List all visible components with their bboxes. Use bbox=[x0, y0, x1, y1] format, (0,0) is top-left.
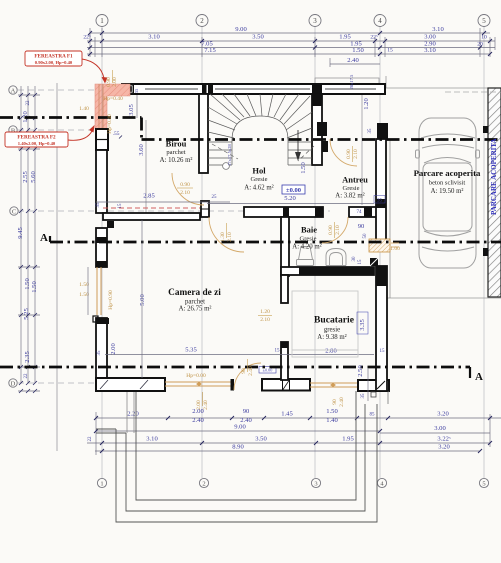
svg-text:7.15: 7.15 bbox=[204, 47, 216, 54]
svg-text:90: 90 bbox=[243, 408, 250, 415]
STAIRS bbox=[208, 94, 312, 165]
svg-text:35: 35 bbox=[361, 393, 366, 399]
TOP DIMENSIONS bbox=[87, 28, 495, 67]
fixtures: toilet + sink bbox=[297, 247, 347, 266]
svg-text:3.50: 3.50 bbox=[252, 34, 264, 41]
svg-text:Gresie: Gresie bbox=[300, 236, 317, 243]
svg-text:Camera de zi: Camera de zi bbox=[168, 288, 221, 298]
svg-text:35: 35 bbox=[368, 128, 373, 134]
svg-text:Hol: Hol bbox=[252, 166, 266, 176]
grid column lines bbox=[102, 27, 484, 478]
window left camera bbox=[96, 267, 98, 315]
svg-text:A: 3.82 m²: A: 3.82 m² bbox=[335, 193, 364, 200]
svg-text:15: 15 bbox=[275, 349, 281, 354]
svg-text:9.00: 9.00 bbox=[235, 26, 247, 33]
svg-text:2.40: 2.40 bbox=[192, 417, 204, 424]
svg-text:Hp=0.00: Hp=0.00 bbox=[186, 373, 206, 379]
bottom window 2 bbox=[310, 382, 357, 384]
svg-text:Antreu: Antreu bbox=[342, 175, 368, 185]
svg-text:35: 35 bbox=[377, 199, 383, 204]
svg-text:1.40x2.00, Hp=0.40: 1.40x2.00, Hp=0.40 bbox=[18, 141, 56, 146]
svg-text:2.20: 2.20 bbox=[127, 411, 139, 418]
SECTION LINES bbox=[0, 118, 501, 379]
svg-text:FEREASTRA F1: FEREASTRA F1 bbox=[34, 54, 73, 60]
birou bottom wall bbox=[103, 213, 200, 220]
svg-text:2.00: 2.00 bbox=[196, 400, 202, 410]
BLUE interior dims bbox=[96, 74, 385, 399]
camera/kitchen divider bbox=[281, 342, 288, 380]
svg-text:gresie: gresie bbox=[324, 327, 340, 334]
svg-text:35: 35 bbox=[134, 88, 139, 93]
svg-text:17x17.5x28: 17x17.5x28 bbox=[227, 143, 232, 166]
left wall upper (Birou) bbox=[96, 150, 107, 213]
grid bubbles top bbox=[96, 15, 490, 27]
svg-text:2: 2 bbox=[202, 481, 205, 488]
svg-text:1.50: 1.50 bbox=[79, 282, 89, 288]
svg-text:3.35: 3.35 bbox=[359, 319, 366, 331]
svg-text:2.10: 2.10 bbox=[260, 317, 270, 323]
svg-text:5.60: 5.60 bbox=[30, 171, 37, 183]
svg-text:Gresie: Gresie bbox=[251, 176, 268, 183]
svg-text:15: 15 bbox=[358, 259, 363, 265]
svg-text:2.10: 2.10 bbox=[227, 232, 233, 242]
±0.00 box bbox=[282, 185, 305, 194]
svg-text:2.40: 2.40 bbox=[203, 400, 209, 410]
svg-text:2.50: 2.50 bbox=[357, 365, 364, 377]
svg-text:1.40: 1.40 bbox=[326, 417, 338, 424]
svg-text:50: 50 bbox=[363, 233, 368, 239]
svg-text:1.40: 1.40 bbox=[79, 106, 89, 112]
red dashed beam bbox=[103, 207, 200, 209]
svg-text:3.00: 3.00 bbox=[424, 34, 436, 41]
right wall bbox=[377, 123, 388, 139]
svg-text:1.95: 1.95 bbox=[339, 34, 351, 41]
svg-text:±0.00: ±0.00 bbox=[286, 187, 301, 194]
svg-text:1.45: 1.45 bbox=[281, 411, 293, 418]
svg-text:3.10: 3.10 bbox=[146, 436, 158, 443]
svg-text:0.90: 0.90 bbox=[180, 182, 190, 188]
svg-text:1: 1 bbox=[100, 17, 104, 25]
svg-text:5.00: 5.00 bbox=[139, 294, 146, 306]
svg-text:Hp=0.90: Hp=0.90 bbox=[108, 290, 114, 310]
svg-text:1.50: 1.50 bbox=[352, 47, 364, 54]
svg-text:4: 4 bbox=[378, 17, 382, 25]
svg-text:3.10: 3.10 bbox=[432, 26, 444, 33]
top wall bbox=[122, 84, 385, 94]
auxiliary gray verticals bbox=[57, 83, 362, 451]
svg-text:85: 85 bbox=[370, 413, 376, 418]
kitchen counter bbox=[292, 291, 358, 357]
grid bubbles left bbox=[9, 86, 18, 387]
svg-text:3.20: 3.20 bbox=[437, 411, 449, 418]
svg-text:1.20: 1.20 bbox=[363, 98, 370, 110]
svg-text:3.05: 3.05 bbox=[128, 104, 135, 116]
svg-text:3.10: 3.10 bbox=[424, 47, 436, 54]
LEFT DIMENSIONS bbox=[18, 86, 40, 391]
svg-text:3: 3 bbox=[314, 481, 317, 488]
svg-text:2.40: 2.40 bbox=[339, 397, 345, 407]
svg-text:A: A bbox=[475, 371, 483, 383]
stair left wall bbox=[199, 94, 208, 173]
pink highlighted wall (fereastra) bbox=[95, 84, 130, 129]
svg-text:9.45: 9.45 bbox=[17, 227, 24, 239]
svg-text:1.20: 1.20 bbox=[260, 309, 270, 315]
svg-text:5: 5 bbox=[482, 481, 485, 488]
svg-text:parchet: parchet bbox=[185, 299, 205, 306]
svg-text:A: 4.62 m²: A: 4.62 m² bbox=[244, 185, 273, 192]
svg-text:8.90: 8.90 bbox=[232, 444, 244, 451]
CAR bbox=[416, 118, 480, 268]
svg-text:1.30: 1.30 bbox=[220, 232, 226, 242]
left wall camera segment 1 bbox=[96, 228, 107, 267]
stair right wall bbox=[312, 94, 322, 165]
svg-text:A: 9.38 m²: A: 9.38 m² bbox=[317, 334, 346, 341]
DOORS (beige) bbox=[172, 139, 399, 252]
svg-text:22: 22 bbox=[26, 100, 31, 106]
svg-text:A: 10.26 m²: A: 10.26 m² bbox=[160, 157, 193, 164]
svg-text:2.55: 2.55 bbox=[22, 171, 29, 183]
svg-text:22: 22 bbox=[24, 373, 29, 379]
svg-text:beton sclivisit: beton sclivisit bbox=[429, 180, 465, 187]
BEIGE dimension texts bbox=[79, 70, 400, 410]
svg-text:5.35: 5.35 bbox=[185, 347, 197, 354]
bottom middle footing bbox=[262, 379, 310, 391]
svg-text:2.00: 2.00 bbox=[112, 77, 118, 87]
left wall camera segment 2 bbox=[93, 316, 98, 322]
svg-text:2.10: 2.10 bbox=[180, 190, 190, 196]
svg-text:Parcare acoperita: Parcare acoperita bbox=[414, 168, 481, 178]
svg-text:2.35: 2.35 bbox=[24, 351, 31, 363]
svg-text:2.40: 2.40 bbox=[347, 57, 359, 64]
svg-text:15: 15 bbox=[380, 349, 386, 354]
svg-text:A: A bbox=[40, 232, 48, 244]
svg-text:3.50: 3.50 bbox=[255, 436, 267, 443]
svg-text:.55: .55 bbox=[113, 131, 120, 137]
svg-text:Baie: Baie bbox=[301, 225, 317, 235]
svg-text:90: 90 bbox=[332, 399, 338, 405]
svg-text:C: C bbox=[12, 209, 16, 216]
svg-text:30: 30 bbox=[352, 256, 357, 262]
svg-text:0.90: 0.90 bbox=[346, 149, 352, 159]
svg-text:3.20: 3.20 bbox=[438, 444, 450, 451]
hol bottom / baie top wall bbox=[244, 207, 323, 217]
svg-text:Hp=0.40: Hp=0.40 bbox=[103, 96, 123, 102]
svg-text:90: 90 bbox=[358, 223, 365, 230]
baie bottom wall bbox=[281, 267, 374, 275]
svg-text:Birou: Birou bbox=[166, 139, 187, 149]
kitchen left upper wall bbox=[281, 275, 288, 303]
svg-text:Bucatarie: Bucatarie bbox=[314, 315, 355, 326]
svg-text:PARCARE ACOPERITA: PARCARE ACOPERITA bbox=[490, 138, 498, 215]
svg-text:35: 35 bbox=[97, 350, 102, 356]
svg-text:2.80: 2.80 bbox=[325, 348, 337, 355]
3.35 box bbox=[357, 312, 368, 334]
svg-text:9.00: 9.00 bbox=[234, 424, 246, 431]
svg-text:20: 20 bbox=[477, 42, 483, 48]
ROOM LABELS bbox=[160, 139, 481, 342]
stair arrow bbox=[297, 130, 299, 158]
svg-text:22: 22 bbox=[88, 436, 93, 442]
grid bubbles bottom bbox=[97, 478, 488, 487]
svg-text:2: 2 bbox=[200, 17, 204, 25]
svg-text:35: 35 bbox=[96, 202, 101, 208]
svg-text:A: 4.20 m²: A: 4.20 m² bbox=[292, 244, 321, 251]
svg-text:A: A bbox=[11, 88, 16, 95]
RED annotations bbox=[5, 51, 108, 147]
svg-text:25: 25 bbox=[212, 195, 218, 200]
PARKING canopy & hatched wall bbox=[385, 76, 387, 88]
grid row dashed lines bbox=[18, 90, 330, 383]
svg-text:0.90: 0.90 bbox=[328, 225, 334, 235]
svg-text:D: D bbox=[11, 381, 16, 388]
svg-text:1.50: 1.50 bbox=[326, 408, 338, 415]
bottom wall left part bbox=[96, 378, 165, 391]
svg-text:3.10: 3.10 bbox=[148, 34, 160, 41]
svg-text:1.50: 1.50 bbox=[24, 278, 31, 290]
svg-text:1.50: 1.50 bbox=[79, 292, 89, 298]
svg-text:2.10: 2.10 bbox=[353, 149, 359, 159]
svg-text:90: 90 bbox=[241, 368, 247, 374]
svg-text:74: 74 bbox=[357, 210, 363, 215]
svg-text:1.50: 1.50 bbox=[300, 162, 307, 174]
bottom wall right corner bbox=[358, 380, 389, 391]
BOTTOM DIMENSIONS bbox=[87, 412, 501, 455]
svg-text:parchet: parchet bbox=[166, 149, 185, 156]
svg-text:10: 10 bbox=[481, 35, 487, 41]
svg-text:2.40: 2.40 bbox=[248, 366, 254, 376]
svg-text:FEREASTRA F2: FEREASTRA F2 bbox=[17, 135, 56, 141]
svg-text:15: 15 bbox=[118, 203, 123, 209]
svg-text:1.95: 1.95 bbox=[342, 436, 354, 443]
window F2 jambs bbox=[96, 129, 108, 150]
svg-text:3.60: 3.60 bbox=[138, 144, 145, 156]
svg-text:3.225: 3.225 bbox=[437, 436, 451, 443]
svg-text:Gresie: Gresie bbox=[343, 185, 360, 192]
svg-text:5.20: 5.20 bbox=[284, 195, 296, 202]
svg-text:28x17.5: 28x17.5 bbox=[349, 74, 354, 89]
svg-text:1.00: 1.00 bbox=[390, 246, 400, 252]
svg-text:15: 15 bbox=[387, 48, 393, 54]
svg-text:A: 19.50 m²: A: 19.50 m² bbox=[431, 188, 464, 195]
svg-text:1.50: 1.50 bbox=[31, 281, 38, 293]
svg-text:A: 26.75 m²: A: 26.75 m² bbox=[179, 306, 212, 313]
svg-text:2.00: 2.00 bbox=[110, 343, 117, 355]
svg-text:2.85: 2.85 bbox=[143, 193, 155, 200]
svg-text:3: 3 bbox=[313, 17, 317, 25]
bottom window 1 bbox=[165, 381, 231, 383]
svg-text:5: 5 bbox=[482, 17, 486, 25]
svg-text:3.00: 3.00 bbox=[434, 425, 446, 432]
TERRACE OUTLINES bbox=[96, 391, 377, 522]
svg-text:1: 1 bbox=[100, 481, 103, 488]
baie left wall bbox=[281, 217, 289, 276]
svg-text:0.90x2.00, Hp=0.40: 0.90x2.00, Hp=0.40 bbox=[35, 60, 73, 65]
svg-text:2.10: 2.10 bbox=[335, 225, 341, 235]
